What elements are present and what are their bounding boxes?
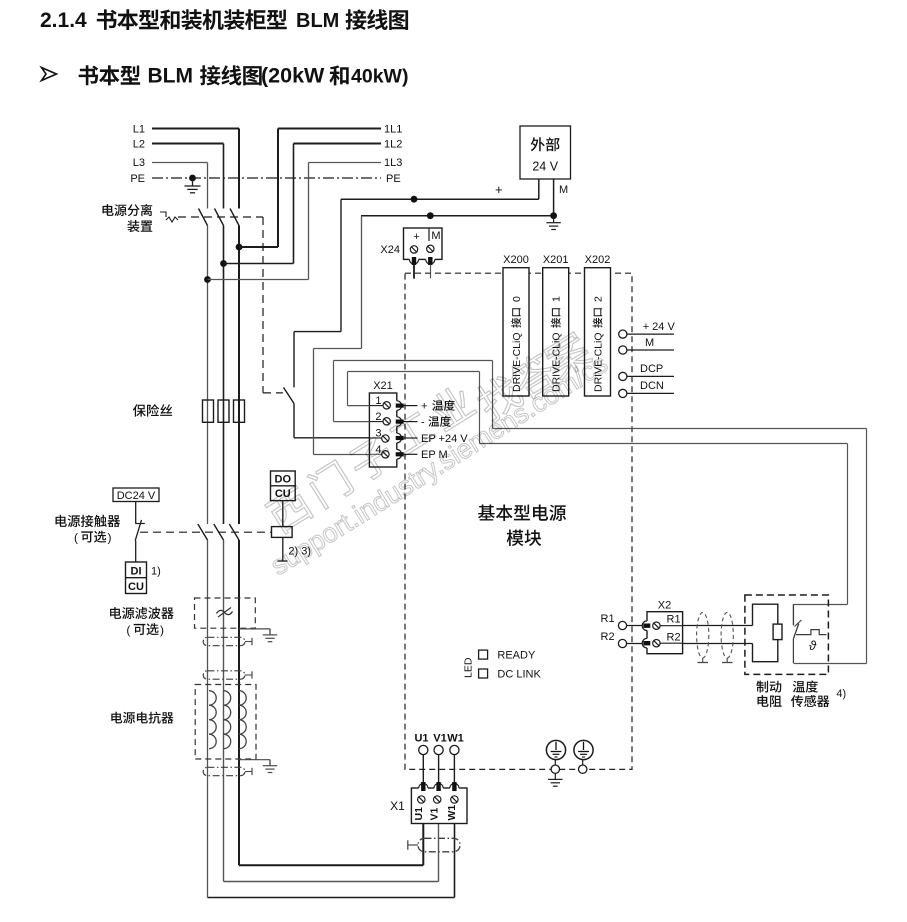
X21 pin 3 line	[403, 437, 417, 439]
terminal DCP circle	[619, 372, 627, 380]
switch contactor pole L3	[229, 524, 239, 540]
label X200	[503, 254, 529, 266]
label DCN	[640, 380, 664, 392]
filter dashed box	[195, 598, 256, 628]
X200 DRIVE-CLiQ port text	[511, 296, 523, 392]
X21 pin 2 contact	[396, 420, 403, 423]
label W1 terminal	[447, 732, 464, 744]
svg-text:+: +	[413, 231, 419, 243]
wire R2 to resistor	[683, 643, 753, 645]
X24 notches	[409, 255, 435, 264]
svg-text:(20kW: (20kW	[261, 64, 325, 88]
X21 pin 1 contact	[396, 404, 403, 407]
wire 1L3 branch	[208, 163, 309, 280]
LED label rotated	[463, 657, 475, 678]
wire L3 drop above switch	[207, 163, 209, 209]
X24 pin wires into module	[414, 265, 431, 279]
X202 DRIVE-CLiQ port text	[593, 296, 605, 392]
dashed box brake resistor + temp sensor	[745, 595, 829, 674]
wire L2 below switch	[223, 226, 225, 525]
PE pad 1	[551, 760, 559, 774]
wire DC24V to contact	[135, 502, 137, 524]
svg-text:-: -	[421, 417, 425, 429]
svg-text:X202: X202	[585, 254, 611, 266]
PE junction dot	[189, 175, 196, 182]
cable marker 2	[203, 671, 252, 679]
wire coil down	[282, 537, 284, 561]
wire EP24 down	[294, 199, 341, 387]
label 电源接触器	[56, 515, 121, 527]
wire V1 bottom run	[224, 824, 439, 882]
junction dot L2 tap	[220, 260, 227, 267]
X1 label V1 rotated	[429, 807, 441, 820]
fuse F1	[203, 400, 214, 422]
wire L3 fuse to bottom	[207, 540, 209, 898]
contactor link dashed	[140, 531, 272, 533]
label 电源电抗器	[111, 712, 173, 724]
contactor coil K1	[272, 527, 293, 538]
label X201	[543, 254, 569, 266]
LED DC LINK square	[479, 669, 488, 678]
X21 notch pin 3	[392, 433, 402, 443]
wire L1 drop above switch	[238, 129, 240, 209]
X1 pin contact 3	[453, 783, 456, 791]
wire L2 in	[152, 143, 224, 145]
LED READY square	[479, 650, 488, 659]
X21 pin 4 number	[375, 444, 381, 456]
switch EP interlock	[284, 387, 295, 403]
connector X202 box	[585, 268, 611, 396]
disconnector link dashed	[178, 216, 263, 218]
label 电源滤波器	[110, 607, 174, 619]
X2 label R1	[667, 614, 681, 626]
X2 pin contacts	[644, 624, 650, 645]
switch contactor pole L2	[214, 524, 224, 540]
temp sensor contact	[793, 604, 801, 663]
X21 screw 4	[382, 451, 389, 458]
switch contactor pole L1	[198, 524, 208, 540]
terminal DCP wire	[627, 375, 674, 377]
terminal R2 circle	[618, 639, 626, 647]
connector X2 box	[647, 612, 683, 654]
label X2	[658, 600, 671, 612]
svg-text:1: 1	[551, 296, 563, 302]
svg-text:(: (	[74, 531, 78, 545]
svg-text:V1: V1	[433, 732, 446, 744]
label R1 terminal	[601, 613, 615, 625]
X21 notch pin 2	[392, 417, 402, 427]
X2 label R2	[667, 632, 681, 644]
cable marker below X1	[408, 838, 460, 852]
wire contact to DI	[135, 541, 137, 562]
filter symbol	[217, 608, 233, 618]
svg-text:DCN: DCN	[640, 380, 664, 392]
label PE	[130, 173, 145, 185]
box 外部 24V	[520, 126, 571, 179]
X2 notch pin R1	[642, 621, 652, 631]
heading line 2	[79, 64, 409, 88]
svg-text:1L2: 1L2	[384, 139, 402, 151]
label 4)	[836, 688, 846, 700]
terminal M wire	[627, 349, 674, 351]
connector X21 box	[369, 393, 396, 467]
heading arrow bullet	[42, 68, 57, 81]
label X1	[390, 799, 405, 813]
X2 internal wire R2	[660, 642, 683, 644]
svg-text:DI: DI	[131, 566, 142, 578]
wire L3 in	[152, 162, 208, 164]
svg-text:R2: R2	[601, 631, 615, 643]
X1 pin contact 2	[437, 783, 440, 791]
X21 notch pin 4	[392, 450, 402, 460]
svg-text:X1: X1	[390, 799, 405, 813]
svg-text:1): 1)	[151, 566, 161, 578]
svg-text:R2: R2	[667, 632, 681, 644]
wire 24V plus	[341, 179, 539, 199]
basic line module dashed box	[405, 273, 632, 769]
box DC24 V	[113, 488, 159, 502]
junction dot X24 M	[427, 212, 434, 219]
X21 internal wire 2	[369, 421, 382, 423]
cable marker 3	[203, 767, 252, 775]
X21 pin 1 number	[375, 395, 381, 407]
X21 internal wire 1	[369, 405, 382, 407]
watermark url text	[265, 348, 613, 581]
X21 screw 3	[382, 435, 389, 442]
connector X1 box	[411, 788, 467, 824]
X21 screw 1	[383, 402, 390, 409]
label U1 terminal	[414, 732, 428, 744]
cable shield symbol 1	[697, 612, 709, 662]
label 1L2	[384, 139, 402, 151]
reactor winding 1	[209, 691, 216, 749]
fuse F3	[234, 400, 245, 422]
X1 label W1 rotated	[446, 805, 458, 821]
svg-text:+: +	[421, 401, 427, 413]
label M	[645, 337, 654, 349]
wire EPM down	[314, 216, 370, 455]
svg-text:(: (	[126, 623, 130, 637]
X201 DRIVE-CLiQ port text	[551, 296, 563, 392]
PE ground	[185, 178, 201, 193]
box DI CU	[126, 562, 147, 594]
disconnector actuator symbol	[160, 212, 178, 222]
svg-text:2: 2	[593, 296, 605, 302]
terminal R1 circle	[618, 621, 626, 629]
X21 pin 3 number	[375, 428, 381, 440]
PE pad 2	[579, 760, 587, 774]
terminal DCN circle	[619, 389, 627, 397]
svg-text:CU: CU	[128, 581, 144, 593]
switch Q1 pole L2	[215, 209, 224, 226]
connector X200 box	[503, 268, 529, 396]
label DC LINK	[497, 668, 541, 680]
svg-text:2.1.4: 2.1.4	[40, 9, 87, 32]
interlock dashed vertical	[263, 217, 283, 393]
connector X201 box	[543, 268, 569, 396]
junction dot L1 tap	[236, 244, 243, 251]
svg-text:BLM: BLM	[148, 65, 194, 88]
wire L2 drop above switch	[223, 144, 225, 209]
wire 1L1 out	[278, 128, 381, 130]
label L1	[133, 124, 145, 136]
wire 1L2 branch	[224, 144, 294, 264]
ground at M wire	[546, 216, 560, 230]
X24 pin contacts	[412, 258, 432, 265]
X21 pin 3 contact	[396, 436, 403, 439]
svg-text:M: M	[645, 337, 654, 349]
X2 screw R2	[653, 640, 660, 647]
label 电源分离装置	[103, 204, 153, 232]
X21 screw 2	[383, 418, 390, 425]
svg-text:DO: DO	[275, 474, 292, 486]
label 制动电阻	[756, 681, 781, 708]
wire R1 to resistor	[683, 625, 753, 627]
svg-text:M: M	[431, 230, 440, 242]
cable shield symbol 2	[721, 612, 733, 662]
svg-text:LED: LED	[463, 657, 475, 678]
svg-text:): )	[160, 623, 164, 637]
label X202	[585, 254, 611, 266]
label L2	[133, 139, 145, 151]
terminal V1 circle	[434, 745, 443, 754]
switch contactor aux	[135, 520, 145, 541]
label 基本型电源模块	[478, 505, 566, 547]
wire U1 bottom run	[239, 824, 423, 866]
wire L2 fuse to bottom	[223, 540, 225, 882]
svg-text:X2: X2	[658, 600, 671, 612]
svg-text:24 V: 24 V	[532, 160, 558, 174]
X2 screw R1	[653, 622, 660, 629]
wire temp- from X21 pin2	[334, 361, 867, 664]
PE terminal circle 2	[574, 740, 593, 759]
label (可选) filter	[126, 623, 164, 637]
PE terminal circle 1	[546, 740, 565, 759]
label - 温度	[421, 416, 451, 429]
svg-text:PE: PE	[386, 173, 401, 185]
svg-text:X201: X201	[543, 254, 569, 266]
temp sensor PTC step	[796, 630, 827, 635]
X1 screw U1	[418, 796, 425, 803]
label + 24 V	[643, 321, 676, 333]
X1 notch pin 1	[419, 783, 428, 792]
switch Q1 pole L1	[230, 209, 239, 226]
svg-text:+: +	[495, 182, 503, 197]
svg-text:BLM: BLM	[296, 10, 339, 32]
svg-text:X200: X200	[503, 254, 529, 266]
svg-text:X21: X21	[373, 380, 393, 392]
label 温度传感器	[791, 681, 830, 708]
wire DO to coil	[282, 501, 284, 527]
terminal W1 circle	[450, 745, 459, 754]
X21 pin 4 line	[403, 453, 417, 455]
U1 V1 W1 terminal wires	[423, 755, 454, 789]
X21 internal wire 3	[369, 437, 382, 439]
X1 pin contact 1	[422, 783, 425, 791]
reactor dashed box	[195, 685, 256, 760]
label V1 terminal	[433, 732, 446, 744]
X24 pin M label	[431, 230, 440, 242]
X21 pin 1 line	[403, 405, 417, 407]
label (可选) contactor	[74, 531, 112, 545]
X24 screw M	[427, 245, 434, 252]
svg-text:DCP: DCP	[640, 363, 663, 375]
svg-text:W1: W1	[447, 732, 464, 744]
label R2 terminal	[601, 631, 615, 643]
svg-text:L1: L1	[133, 124, 145, 136]
reactor winding 2	[224, 691, 231, 749]
connector X24 box	[404, 228, 443, 259]
X1 screw V1	[434, 796, 441, 803]
label + on 24V wire	[495, 182, 503, 197]
X1 notch pin 3	[450, 783, 459, 792]
svg-text:L3: L3	[133, 157, 145, 169]
watermark hanzi line 2	[472, 328, 594, 424]
label DCP	[640, 363, 663, 375]
X21 pin 2 number	[375, 411, 381, 423]
label X21	[373, 380, 393, 392]
svg-text:PE: PE	[130, 173, 145, 185]
junction dot X24 plus	[411, 196, 418, 203]
X21 pin 2 line	[403, 421, 417, 423]
label PE right	[386, 173, 401, 185]
resistor loop wires	[753, 604, 778, 662]
X21 pin 4 contact	[396, 453, 403, 456]
wire PE	[152, 177, 381, 179]
junction dot M ground	[550, 212, 557, 219]
wire L1 fuse to bottom	[238, 540, 240, 865]
X21 notch pin 1	[392, 401, 402, 411]
svg-text:DC LINK: DC LINK	[497, 668, 541, 680]
svg-text:): )	[108, 531, 112, 545]
label EP M	[421, 449, 448, 461]
svg-text:1L3: 1L3	[384, 157, 402, 169]
svg-text:V1: V1	[429, 807, 441, 820]
X24 screw +	[410, 246, 417, 253]
X24 pin + label	[413, 231, 419, 243]
svg-text:+ 24 V: + 24 V	[643, 321, 676, 333]
label EP +24 V	[421, 433, 468, 445]
X1 notch pin 2	[434, 783, 443, 792]
terminal DCN wire	[627, 392, 674, 394]
ground tap after filter	[239, 629, 277, 642]
X21 internal wire 4	[369, 453, 382, 455]
svg-text:DRIVE-CLiQ: DRIVE-CLiQ	[511, 332, 523, 392]
X2 notch pin R2	[642, 638, 652, 648]
svg-text:W1: W1	[446, 805, 458, 821]
terminal + 24 V circle	[619, 330, 627, 338]
label M on 24V wire	[559, 184, 568, 196]
svg-text:U1: U1	[413, 807, 425, 821]
label 1L1	[384, 124, 402, 136]
label X24	[380, 244, 400, 256]
svg-text:R1: R1	[667, 614, 681, 626]
wire 1L2 out	[294, 143, 382, 145]
wire L3 below switch	[207, 226, 209, 525]
svg-text:READY: READY	[497, 649, 536, 661]
fuse F2	[218, 400, 229, 422]
svg-text:U1: U1	[414, 732, 428, 744]
wire temp+ from X21 pin1	[348, 372, 848, 626]
wire 24V M	[361, 179, 554, 216]
X1 label U1 rotated	[413, 807, 425, 821]
label 1L3	[384, 157, 402, 169]
svg-text:DC24 V: DC24 V	[117, 490, 156, 502]
wire 1L1 branch	[239, 129, 278, 248]
svg-text:ϑ: ϑ	[809, 638, 817, 653]
terminal M circle	[619, 346, 627, 354]
svg-text:4): 4)	[836, 688, 846, 700]
ground tap after reactor	[239, 760, 277, 773]
svg-text:0: 0	[511, 296, 523, 302]
wire 1L3 out	[309, 162, 382, 164]
label + 温度	[421, 400, 455, 413]
svg-text:R1: R1	[601, 613, 615, 625]
label 1)	[151, 566, 161, 578]
cable marker 1	[203, 637, 252, 645]
wire L1 in	[152, 128, 239, 130]
terminal + 24 V wire	[627, 333, 674, 335]
watermark hanzi line 1	[263, 381, 478, 535]
PE ground bottom	[548, 773, 562, 786]
svg-text:M: M	[559, 184, 568, 196]
label 保险丝	[133, 404, 172, 417]
box DO CU	[271, 471, 296, 501]
wire R2 to X2	[627, 643, 644, 645]
reactor winding 3	[239, 691, 246, 749]
temp sensor theta symbol	[809, 638, 817, 653]
heading 2.1.4	[40, 9, 408, 32]
coil wire end tick	[278, 560, 288, 562]
wire R1 to X2	[627, 625, 644, 627]
svg-text:L2: L2	[133, 139, 145, 151]
switch Q1 pole L3	[199, 209, 208, 226]
wire L1 below switch	[238, 226, 240, 525]
label 2) 3)	[288, 546, 311, 558]
resistor R element	[773, 624, 782, 640]
label READY	[497, 649, 536, 661]
terminal U1 circle	[419, 745, 428, 754]
X2 internal wire R1	[660, 625, 683, 627]
svg-text:X24: X24	[380, 244, 400, 256]
svg-text:40kW): 40kW)	[351, 66, 408, 88]
wire W1 bottom run	[208, 824, 455, 898]
label L3	[133, 157, 145, 169]
X1 screw W1	[451, 796, 458, 803]
wire EP24 to X21	[294, 404, 369, 438]
junction dot L3 tap	[204, 276, 211, 283]
svg-text:1L1: 1L1	[384, 124, 402, 136]
